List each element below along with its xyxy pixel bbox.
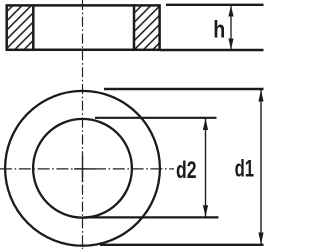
washer section bottom edge across hole: [33, 49, 135, 52]
horizontal centerline: [0, 168, 174, 170]
label h: [213, 17, 225, 44]
svg-text:d2: d2: [176, 157, 197, 184]
d1 bottom extension line: [100, 244, 264, 246]
d2 top extension line: [95, 117, 217, 119]
h bottom extension line: [160, 49, 264, 51]
svg-text:d1: d1: [235, 156, 255, 183]
washer section left hatched block: [7, 5, 34, 49]
h dimension arrow up: [228, 6, 233, 17]
d1 top extension line: [104, 88, 264, 91]
d2 arrow up: [203, 118, 208, 130]
d1 dimension line: [260, 90, 262, 244]
vertical centerline (shared by both views): [82, 0, 84, 249]
d1 arrow up: [258, 90, 263, 102]
d2 bottom extension line: [84, 216, 219, 218]
svg-text:h: h: [213, 17, 225, 44]
d1 arrow down: [258, 233, 263, 245]
center cross vertical tick: [82, 156, 84, 182]
label d1: [235, 156, 255, 183]
d2 arrow down: [203, 205, 208, 217]
outer circle d1: [5, 91, 160, 246]
washer section right hatched block: [134, 5, 160, 49]
inner circle d2: [33, 119, 132, 218]
washer section top edge across hole: [33, 4, 135, 7]
h dimension line: [230, 6, 232, 49]
label d2: [176, 157, 197, 184]
center cross horizontal tick: [74, 168, 95, 170]
d2 dimension line: [205, 119, 207, 217]
h dimension arrow down: [228, 39, 233, 50]
h top extension line: [166, 4, 264, 6]
